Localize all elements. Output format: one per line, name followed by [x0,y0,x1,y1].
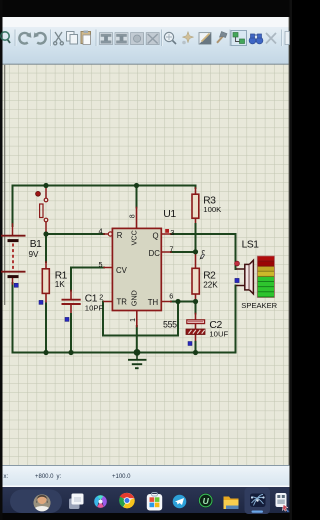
svg-text:10UF: 10UF [209,330,228,339]
svg-text:5: 5 [99,260,103,269]
svg-text:4: 4 [99,226,103,235]
svg-text:B1: B1 [30,239,42,250]
svg-text:9V: 9V [29,250,40,259]
svg-text:VCC: VCC [130,230,139,245]
svg-text:SPEAKER: SPEAKER [241,301,277,310]
svg-text:Q: Q [153,231,159,240]
svg-text:TH: TH [148,298,158,307]
svg-text:y:: y: [57,474,62,480]
svg-text:LS1: LS1 [242,240,260,251]
svg-text:U: U [203,496,210,506]
svg-text:100K: 100K [203,205,222,214]
svg-text:x:: x: [4,474,9,480]
svg-text:U1: U1 [163,209,176,220]
svg-text:GND: GND [129,290,138,306]
svg-text:+800.0: +800.0 [35,474,54,480]
svg-text:R: R [117,231,123,240]
svg-text:+100.0: +100.0 [112,474,131,480]
svg-text:1: 1 [130,318,137,322]
svg-text:8: 8 [130,214,137,218]
svg-text:555: 555 [163,319,177,329]
svg-text:1K: 1K [55,280,66,289]
svg-text:TR: TR [117,297,128,306]
svg-text:2: 2 [99,293,103,302]
svg-text:DC: DC [149,249,161,258]
svg-text:10PF: 10PF [85,304,104,313]
svg-text:3: 3 [170,228,174,237]
svg-text:CV: CV [116,266,128,275]
svg-text:6: 6 [169,291,173,300]
svg-text:22K: 22K [203,281,218,290]
svg-text:7: 7 [170,245,174,254]
